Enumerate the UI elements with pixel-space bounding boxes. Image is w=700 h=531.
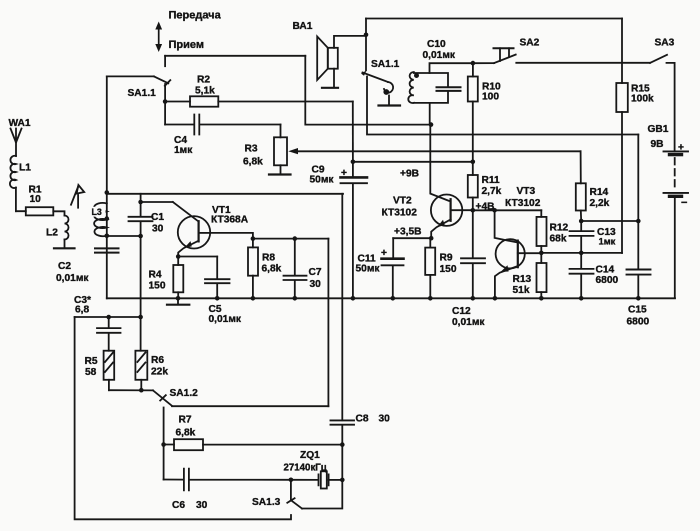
svg-text:SA2: SA2 (520, 38, 540, 49)
wire x=367 from SA1.1 arm down, corner to y=134.5 line (367, 77, 638, 135)
svg-text:R9: R9 (440, 253, 453, 264)
resistor R14 (576, 183, 586, 221)
wire y=390 line (109, 389, 153, 391)
capacitor C12 (461, 210, 485, 298)
resistor R6 (135, 317, 147, 390)
svg-text:+3,5В: +3,5В (394, 227, 421, 238)
resistor R11 (468, 162, 478, 211)
svg-text:1мк: 1мк (174, 145, 193, 156)
svg-text:GB1: GB1 (648, 124, 669, 135)
svg-text:C2: C2 (58, 261, 71, 272)
wire x=328.5 from collector line down to SA1.2 line (327, 239, 329, 407)
inductor L2 (65, 216, 69, 249)
resistor R1 (16, 207, 65, 215)
svg-text:L3: L3 (92, 207, 102, 217)
svg-text:2,2k: 2,2k (590, 198, 610, 209)
wire link y=221 (582, 220, 639, 222)
svg-text:51k: 51k (513, 285, 530, 296)
svg-text:R11: R11 (482, 175, 500, 186)
trimmer arrow for L3 (71, 185, 84, 208)
resistor R3 with arrow (269, 125, 298, 175)
wire VT1 top line y=194 from L3 to x=343 (107, 193, 343, 195)
wire x=580.8 from wiper line to R14 (580, 151, 582, 183)
resistor R12 (537, 210, 547, 253)
wire y=56 line from SA1.1 to speaker column (165, 55, 305, 57)
resistor R5 (104, 351, 115, 391)
switch SA1.2 (153, 390, 172, 479)
capacitor C7 (284, 239, 307, 299)
capacitor C5 (205, 257, 230, 299)
svg-text:C15: C15 (628, 305, 647, 316)
svg-text:КТ368А: КТ368А (211, 215, 249, 226)
svg-text:R8: R8 (262, 253, 275, 264)
resistor R10 (468, 63, 478, 162)
svg-text:+: + (381, 248, 387, 259)
svg-text:L1: L1 (19, 163, 31, 174)
label Peredacha arrow (155, 22, 162, 53)
svg-text:SA1.3: SA1.3 (252, 497, 281, 508)
svg-text:5,1k: 5,1k (195, 86, 215, 97)
capacitor C13 (570, 221, 594, 253)
svg-text:C12: C12 (452, 306, 471, 317)
inductor L1 (10, 156, 16, 211)
resistor R9 (425, 238, 435, 298)
wire C1 bottom to main vertical y=236 (107, 235, 141, 237)
svg-text:10: 10 (30, 194, 42, 205)
svg-text:6,8k: 6,8k (176, 428, 196, 439)
svg-text:Передача: Передача (169, 9, 222, 21)
svg-text:ВА1: ВА1 (293, 21, 313, 32)
wire x=622 vertical from top rail through R15 to y=253 (621, 19, 623, 84)
resistor R8 (248, 239, 258, 299)
svg-text:КТ3102: КТ3102 (382, 208, 418, 219)
svg-text:6800: 6800 (596, 275, 619, 286)
svg-text:R2: R2 (197, 75, 210, 86)
svg-text:R4: R4 (149, 270, 162, 281)
svg-text:+4В: +4В (476, 202, 495, 213)
crystal ZQ1 (291, 471, 342, 488)
wire +9V line y=161.8 (353, 161, 473, 163)
svg-text:50мк: 50мк (356, 264, 381, 275)
antenna WA1 (11, 129, 22, 157)
capacitor C1 (129, 202, 153, 236)
loudspeaker BA1 (317, 36, 366, 88)
switch SA1.1 left section (107, 56, 171, 125)
switch SA1.3 (287, 480, 302, 509)
svg-text:C1: C1 (151, 212, 164, 223)
wire +4V line y=210.3 (473, 209, 542, 211)
svg-text:+: + (341, 168, 347, 179)
wire VT1 emitter node line (178, 256, 217, 258)
switch SA1.1 right section (361, 19, 400, 106)
resistor R2 (165, 96, 353, 106)
capacitor C11 (382, 238, 404, 298)
svg-text:0,01мк: 0,01мк (452, 317, 485, 328)
svg-text:1мк: 1мк (599, 236, 616, 247)
svg-text:R6: R6 (151, 355, 164, 366)
svg-text:0,01мк: 0,01мк (209, 314, 242, 325)
svg-text:Прием: Прием (169, 39, 205, 51)
ground rail y=298.3 (107, 297, 675, 299)
battery GB1 (664, 151, 689, 298)
svg-text:C7: C7 (309, 267, 322, 278)
svg-text:6,8k: 6,8k (262, 264, 282, 275)
switch SA3 (650, 55, 675, 151)
capacitor C14 (570, 253, 594, 299)
svg-text:68k: 68k (550, 234, 567, 245)
svg-text:30: 30 (379, 414, 391, 425)
capacitor C4 (165, 115, 280, 135)
resistor R13 (537, 253, 547, 299)
wire x=342.3 from top line down through C8 to SA1.3 (302, 194, 342, 509)
svg-text:27140кГц: 27140кГц (284, 463, 327, 474)
wire VT2 emitter node y=238.2 (393, 237, 431, 239)
capacitor C10 in tank (437, 87, 461, 91)
svg-text:100: 100 (482, 92, 499, 103)
svg-text:2,7k: 2,7k (482, 186, 502, 197)
svg-text:150: 150 (440, 264, 457, 275)
wire R3 wiper line y=151.5 to x=580 (296, 150, 581, 152)
capacitor C2 (95, 248, 119, 252)
wire VT2 collector vertical x=430.4 (430, 125, 449, 201)
wire top rail y=18.5 (366, 18, 622, 20)
svg-text:+9В: +9В (400, 169, 419, 180)
resistor R7 (164, 439, 343, 450)
svg-text:100k: 100k (631, 94, 654, 105)
svg-text:0,01мк: 0,01мк (56, 273, 89, 284)
pushbutton SA2 (473, 48, 650, 63)
svg-text:R7: R7 (179, 415, 192, 426)
svg-text:22k: 22k (151, 367, 168, 378)
svg-text:+: + (678, 143, 684, 154)
capacitor C6 (164, 469, 291, 491)
svg-text:0,01мк: 0,01мк (423, 50, 456, 61)
transistor VT3 (495, 210, 542, 298)
svg-text:−: − (681, 197, 687, 209)
svg-text:9В: 9В (651, 139, 664, 150)
inductor L3 (94, 203, 107, 236)
wire main vertical x=107 from SA1.1 corner down to ground rail (106, 76, 108, 298)
wire stub x=140.6 to C1/base node (140, 194, 142, 202)
svg-text:R5: R5 (85, 356, 98, 367)
wire x=305.4 down and y=124.6 line to tank (305, 56, 431, 125)
svg-text:30: 30 (310, 279, 322, 290)
ground marker on rail (167, 298, 189, 304)
svg-text:30: 30 (196, 500, 208, 511)
svg-text:SA1.1: SA1.1 (128, 88, 157, 99)
svg-text:R12: R12 (550, 223, 569, 234)
svg-text:6,8: 6,8 (75, 305, 89, 316)
svg-text:C10: C10 (427, 39, 446, 50)
resistor R4 (173, 257, 183, 299)
svg-text:WA1: WA1 (9, 118, 31, 129)
wire x=638.3 down through C15 to rail (637, 135, 639, 299)
capacitor C9 (341, 162, 368, 298)
wire x=353 from R2 corner down through C9 (352, 102, 354, 162)
svg-text:30: 30 (152, 224, 164, 235)
wire base line y=253 to x=622 (541, 252, 622, 254)
svg-text:SA1.1: SA1.1 (371, 59, 400, 70)
wire base node line y=202 (141, 201, 173, 203)
wire y=317 line (75, 316, 141, 318)
capacitor C3* (97, 317, 121, 351)
resistor R15 (616, 83, 628, 253)
wire y=406.2 line to x=328.4 (172, 405, 328, 407)
wire x=140.6 down across rail to R5R6 line (140, 236, 142, 317)
svg-text:C6: C6 (172, 500, 185, 511)
svg-text:SA1.2: SA1.2 (170, 388, 199, 399)
oscillator tank coil L4 (408, 63, 473, 124)
svg-text:VT2: VT2 (393, 196, 412, 207)
label L3 (89, 207, 106, 217)
svg-text:SA3: SA3 (655, 38, 675, 49)
svg-text:КТ3102: КТ3102 (505, 198, 541, 209)
svg-text:ZQ1: ZQ1 (300, 450, 320, 461)
wire left column x=74.6 down to bottom line (75, 317, 291, 519)
wire VT1 collector line (210, 233, 328, 239)
svg-text:R3: R3 (245, 144, 258, 155)
svg-text:150: 150 (149, 281, 166, 292)
svg-text:VT3: VT3 (517, 186, 536, 197)
capacitor C15 (627, 270, 651, 275)
svg-text:C8: C8 (356, 414, 369, 425)
transistor VT1 (173, 202, 210, 257)
contact bar under BA1 (322, 87, 338, 89)
capacitor C8 (331, 420, 355, 424)
ground bar under L2 (54, 247, 75, 249)
svg-text:50мк: 50мк (310, 175, 335, 186)
svg-text:6800: 6800 (627, 317, 650, 328)
svg-text:L2: L2 (46, 228, 58, 239)
transistor VT2 (431, 195, 473, 239)
svg-text:58: 58 (85, 367, 97, 378)
svg-text:R13: R13 (513, 274, 532, 285)
svg-text:C14: C14 (596, 265, 615, 276)
svg-text:6,8k: 6,8k (243, 157, 263, 168)
svg-text:R14: R14 (590, 187, 609, 198)
